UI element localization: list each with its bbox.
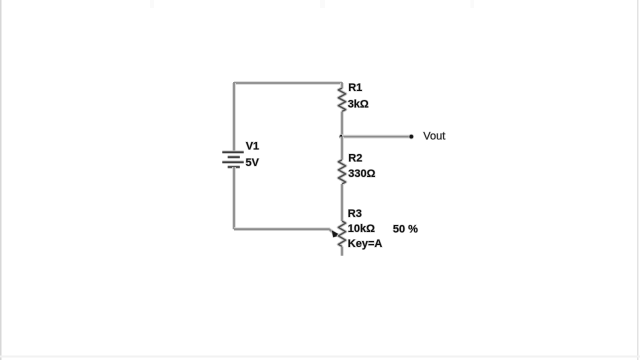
svg-text:R2: R2 xyxy=(348,152,362,164)
node Vout terminal dot xyxy=(409,134,414,139)
wire top horizontal xyxy=(233,81,342,85)
svg-text:Key=A: Key=A xyxy=(348,238,383,250)
svg-text:330Ω: 330Ω xyxy=(348,168,375,180)
wire R3 bottom stub xyxy=(340,247,344,256)
left screen edge line xyxy=(0,0,2,360)
resistor R1 xyxy=(338,88,345,112)
battery V1 xyxy=(222,152,243,167)
svg-text:10kΩ: 10kΩ xyxy=(348,223,375,235)
svg-text:5V: 5V xyxy=(246,157,260,169)
wire left vertical (top corner to battery) xyxy=(232,82,236,152)
wire R2 top pin xyxy=(340,137,344,160)
wire battery bottom vertical xyxy=(232,167,236,229)
potentiometer R3 xyxy=(338,221,345,247)
node junction dot xyxy=(339,134,344,139)
svg-text:R3: R3 xyxy=(348,208,362,220)
svg-text:Vout: Vout xyxy=(423,131,445,143)
svg-text:3kΩ: 3kΩ xyxy=(348,98,369,110)
wire R2 bottom pin xyxy=(340,184,344,221)
resistor R2 xyxy=(338,160,345,184)
right screen edge line xyxy=(637,0,639,360)
wiper arrowhead xyxy=(332,230,341,237)
bottom faint band xyxy=(0,356,640,358)
wire Vout tap xyxy=(342,135,411,139)
svg-text:50 %: 50 % xyxy=(393,224,418,236)
wire R1 top pin xyxy=(340,82,344,88)
top faint tick 1 xyxy=(150,0,154,8)
top faint tick 2 xyxy=(320,0,325,8)
wire bottom horizontal to wiper xyxy=(234,229,334,233)
top faint tick 3 xyxy=(471,0,475,8)
wire R1 bottom to node xyxy=(340,112,344,137)
svg-text:R1: R1 xyxy=(348,82,362,94)
svg-text:V1: V1 xyxy=(246,141,259,153)
